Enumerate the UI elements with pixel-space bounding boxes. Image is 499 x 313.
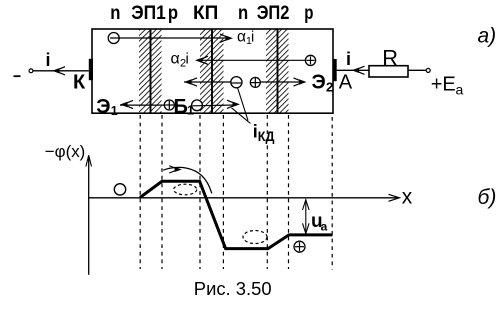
supply terminal circle xyxy=(426,68,430,72)
svg-text:R: R xyxy=(382,46,398,71)
wire row4 arrow xyxy=(193,104,237,107)
svg-text:Э: Э xyxy=(312,71,326,93)
wire row3 left segment xyxy=(184,81,232,83)
semiconductor structure box xyxy=(92,29,333,113)
dashed line КП left edge xyxy=(199,115,201,269)
svg-text:Э: Э xyxy=(96,96,110,118)
cathode terminal circle xyxy=(29,69,33,73)
axis arrowhead up xyxy=(86,155,92,166)
dashed line ЭП2 left edge xyxy=(266,115,268,269)
minus terminal sign xyxy=(14,75,21,77)
svg-text:б): б) xyxy=(478,186,497,209)
hole symbol row3 xyxy=(250,77,260,87)
arrowhead row3 left xyxy=(184,79,192,84)
arc arrow over barrier xyxy=(163,167,212,193)
svg-text:а: а xyxy=(456,82,464,98)
anode current arrowhead xyxy=(352,68,360,73)
wire resistor to supply xyxy=(408,69,426,71)
electron symbol row1 xyxy=(108,33,119,44)
junction КП center line xyxy=(211,29,213,113)
svg-text:i: i xyxy=(251,29,254,45)
junction ЭП2 hatched band xyxy=(266,30,289,113)
svg-text:+Е: +Е xyxy=(431,73,456,95)
potential curve xyxy=(140,181,333,248)
svg-text:ЭП2: ЭП2 xyxy=(257,2,290,24)
dashed line anode edge xyxy=(331,117,333,270)
resistor R xyxy=(369,66,408,77)
x axis horizontal xyxy=(89,197,399,199)
svg-text:1: 1 xyxy=(111,104,118,118)
cathode wire xyxy=(33,70,89,72)
potential axis vertical xyxy=(88,156,90,275)
svg-text:2: 2 xyxy=(326,80,333,95)
dashed line ЭП1 right edge xyxy=(161,115,163,269)
svg-text:n: n xyxy=(238,2,248,24)
wire row4 left segment xyxy=(120,104,165,106)
svg-text:А: А xyxy=(339,71,353,93)
svg-text:КД: КД xyxy=(258,128,275,144)
svg-text:а: а xyxy=(321,219,328,233)
electron circle on axis xyxy=(114,184,125,195)
anode wire to resistor xyxy=(337,69,369,71)
axis arrowhead right xyxy=(389,194,400,201)
ua dimension arrow xyxy=(305,200,307,234)
svg-text:n: n xyxy=(110,2,120,24)
arc arrowhead xyxy=(175,167,182,172)
svg-text:α: α xyxy=(237,28,246,45)
svg-text:−φ(x): −φ(x) xyxy=(45,142,86,161)
svg-text:Рис. 3.50: Рис. 3.50 xyxy=(194,278,272,299)
electron symbol row3 xyxy=(231,77,242,88)
svg-text:ЭП1: ЭП1 xyxy=(131,2,166,24)
arrowhead row3 right xyxy=(299,79,307,84)
svg-text:р: р xyxy=(304,2,313,24)
arrowhead row4 left xyxy=(120,102,128,107)
junction ЭП2 center line xyxy=(277,29,279,113)
svg-text:α: α xyxy=(171,51,180,68)
svg-text:x: x xyxy=(402,185,413,208)
arrowhead row4 right xyxy=(233,102,241,107)
anode contact bar A xyxy=(333,59,337,81)
hole symbol row4 xyxy=(164,100,174,110)
svg-text:i: i xyxy=(46,50,51,70)
junction ЭП1 center line xyxy=(150,29,152,113)
svg-text:Б: Б xyxy=(174,96,188,118)
wire electron flow row1 xyxy=(110,37,227,39)
dashed line КП right edge xyxy=(222,115,224,269)
svg-text:р: р xyxy=(168,2,178,24)
wire hole flow row2 xyxy=(200,59,306,61)
hole ellipse in well xyxy=(243,231,267,244)
electron symbol row4 xyxy=(192,100,203,111)
pointer line from iКД to electron row3 xyxy=(238,88,249,121)
cathode contact bar K xyxy=(89,59,93,80)
svg-text:а): а) xyxy=(478,25,497,48)
hole symbol row2 xyxy=(305,55,315,65)
svg-text:i: i xyxy=(186,51,189,68)
junction ЭП1 hatched band xyxy=(139,30,162,113)
wire row3 right segment xyxy=(261,81,304,83)
hole symbol in well xyxy=(294,241,305,252)
cathode current arrowhead xyxy=(52,68,60,73)
arrowhead row1 right xyxy=(226,36,234,41)
hole ellipse on barrier top xyxy=(174,184,197,195)
junction КП hatched band xyxy=(200,30,224,113)
svg-text:i: i xyxy=(346,49,351,69)
svg-text:К: К xyxy=(73,72,86,94)
dashed line ЭП2 right edge xyxy=(288,115,290,269)
arrowhead row2 left xyxy=(195,58,203,63)
dashed line ЭП1 left edge xyxy=(139,115,141,269)
svg-text:КП: КП xyxy=(193,2,218,24)
pointer line from iКД to row4 arrow xyxy=(232,108,251,124)
